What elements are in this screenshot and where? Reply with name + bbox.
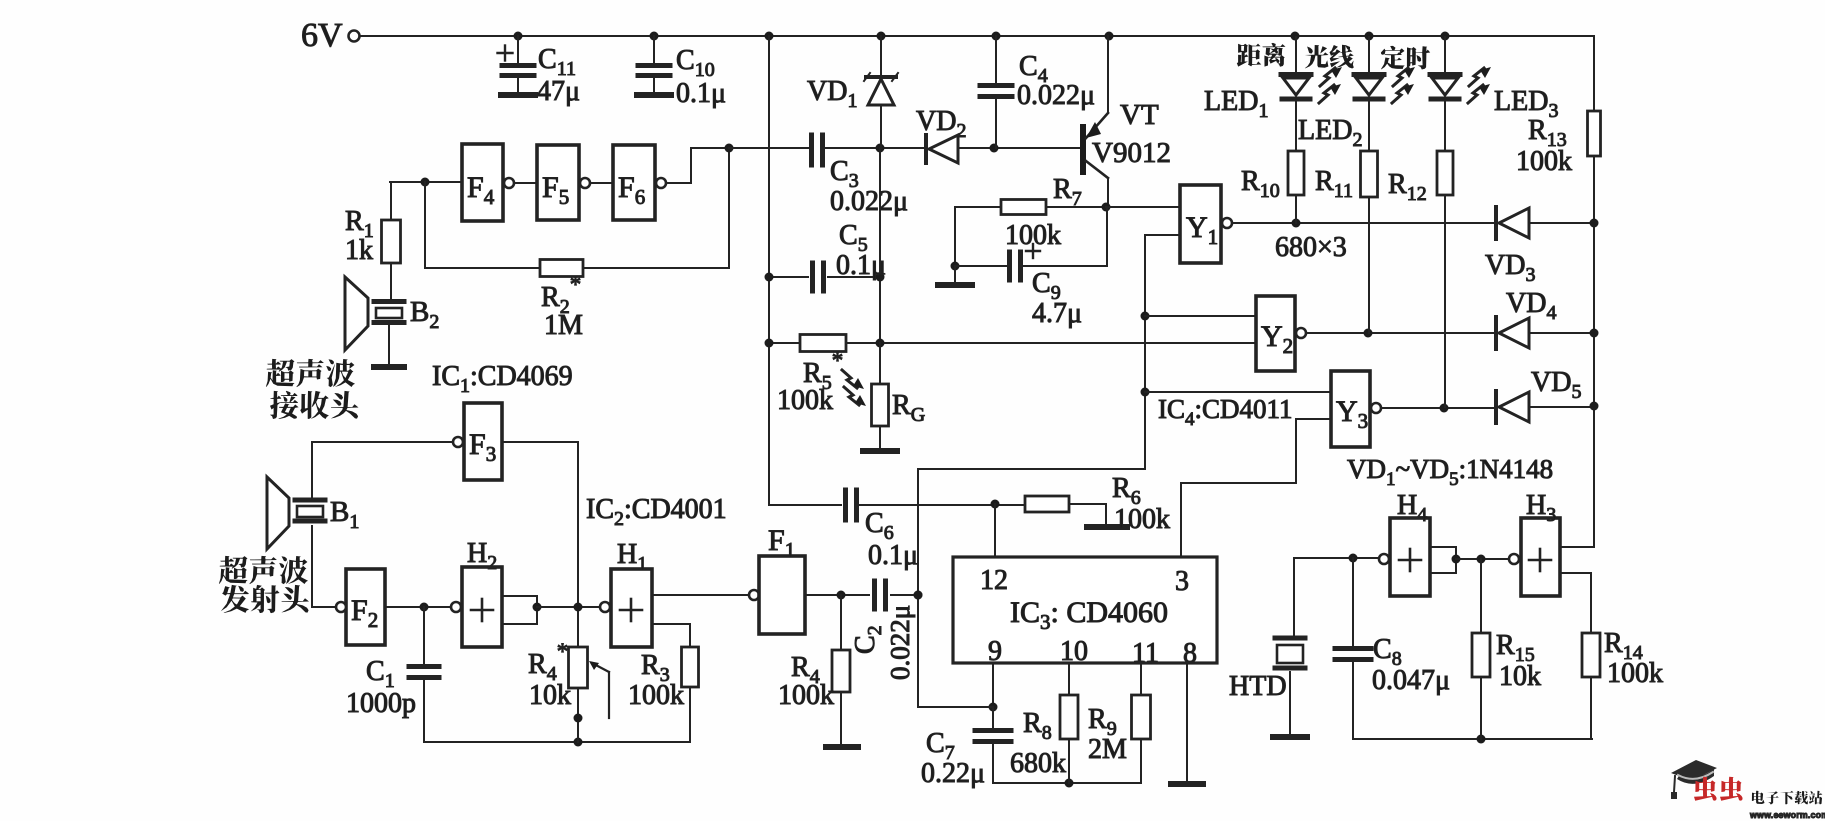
svg-text:6V: 6V — [301, 17, 343, 54]
svg-text:12: 12 — [980, 565, 1008, 596]
svg-text:0.047μ: 0.047μ — [1372, 665, 1450, 696]
svg-text:47μ: 47μ — [537, 76, 580, 107]
svg-text:8: 8 — [1183, 638, 1197, 669]
svg-text:0.1μ: 0.1μ — [676, 78, 726, 109]
svg-text:0.1μ: 0.1μ — [836, 250, 886, 281]
svg-text:2M: 2M — [1088, 734, 1127, 765]
svg-text:100k: 100k — [1607, 658, 1663, 689]
svg-text:100k: 100k — [778, 680, 834, 711]
svg-text:0.022μ: 0.022μ — [830, 186, 908, 217]
svg-text:4.7μ: 4.7μ — [1032, 298, 1082, 329]
svg-text:100k: 100k — [777, 385, 833, 416]
svg-text:VT: VT — [1120, 99, 1159, 131]
svg-text:www.eeworm.com: www.eeworm.com — [1749, 810, 1825, 820]
svg-text:100k: 100k — [1516, 146, 1572, 177]
svg-text:10k: 10k — [1499, 661, 1541, 692]
svg-text:680k: 680k — [1010, 748, 1066, 779]
svg-text:V9012: V9012 — [1092, 137, 1171, 169]
svg-text:1000p: 1000p — [346, 688, 416, 719]
svg-text:1k: 1k — [345, 235, 373, 266]
svg-text:10: 10 — [1060, 636, 1088, 667]
svg-text:3: 3 — [1175, 566, 1189, 597]
svg-text:IC1:CD4069: IC1:CD4069 — [432, 361, 573, 397]
svg-text:HTD: HTD — [1229, 671, 1287, 702]
svg-text:0.022μ: 0.022μ — [885, 605, 915, 680]
svg-text:IC3: CD4060: IC3: CD4060 — [1010, 596, 1168, 634]
svg-text:10k: 10k — [529, 680, 571, 711]
svg-text:100k: 100k — [628, 680, 684, 711]
svg-text:0.022μ: 0.022μ — [1017, 80, 1095, 111]
svg-text:IC2:CD4001: IC2:CD4001 — [586, 494, 727, 530]
svg-text:100k: 100k — [1114, 504, 1170, 535]
svg-text:1M: 1M — [544, 310, 583, 341]
svg-text:0.1μ: 0.1μ — [868, 540, 918, 571]
svg-text:680×3: 680×3 — [1275, 232, 1347, 263]
svg-text:0.22μ: 0.22μ — [921, 758, 985, 789]
svg-text:11: 11 — [1132, 638, 1159, 669]
svg-text:9: 9 — [988, 636, 1002, 667]
